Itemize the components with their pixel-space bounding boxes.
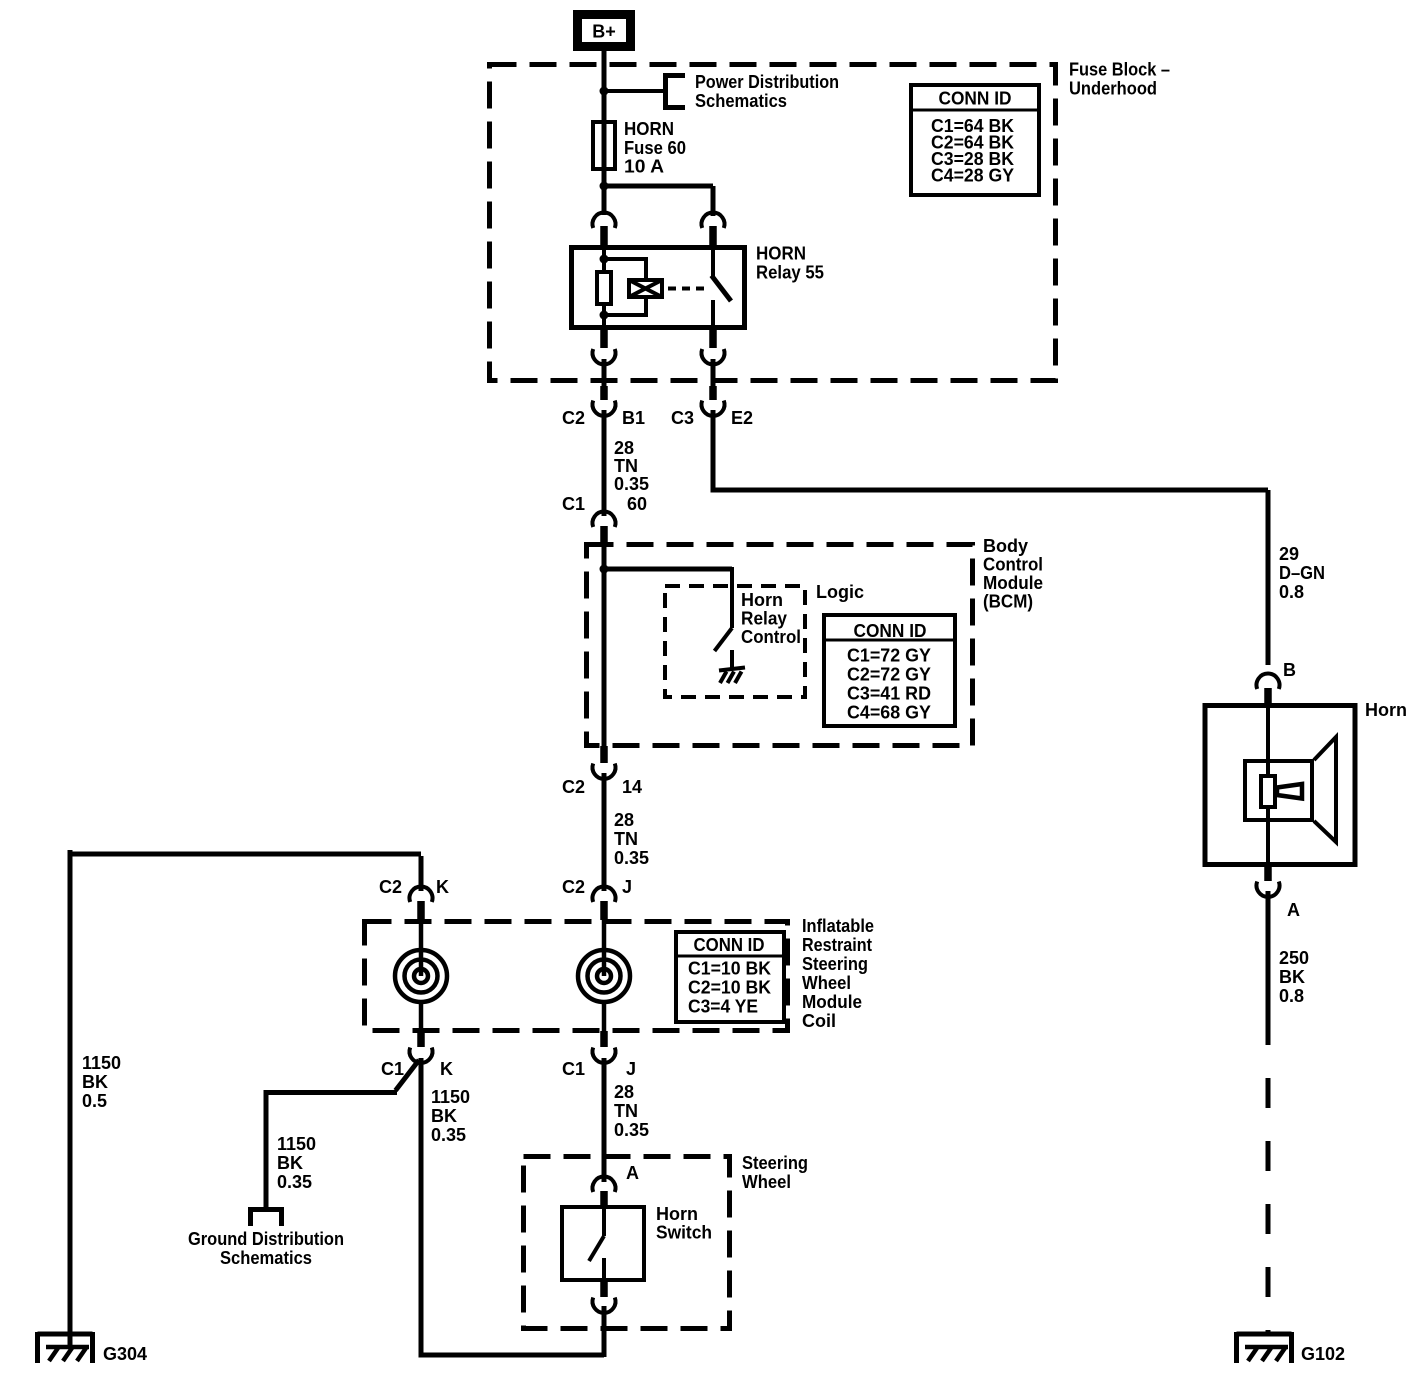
svg-text:Steering: Steering [802,954,868,974]
svg-text:0.35: 0.35 [614,848,649,868]
svg-text:10 A: 10 A [624,157,664,177]
connector arc relay coil pin top [593,213,616,247]
svg-text:HORN: HORN [624,119,674,139]
connector pin B into horn [1257,660,1297,704]
connector arc relay switch pin bottom [702,328,725,364]
svg-text:Switch: Switch [656,1223,712,1243]
svg-text:Fuse Block –: Fuse Block – [1069,60,1170,80]
wire B1 to BCM C1 60 [602,410,607,516]
relay actuator dashed link [668,287,706,291]
svg-text:0.5: 0.5 [82,1091,107,1111]
svg-text:Schematics: Schematics [695,91,787,111]
svg-text:29: 29 [1279,544,1299,564]
svg-text:(BCM): (BCM) [983,592,1033,612]
svg-text:K: K [436,877,449,897]
svg-text:TN: TN [614,1101,638,1121]
svg-text:Control: Control [741,627,801,647]
svg-text:TN: TN [614,456,638,476]
label Body Control Module (BCM) [983,536,1043,612]
label Horn Relay Control [741,590,801,647]
logic ground symbol [719,650,745,683]
svg-text:Fuse 60: Fuse 60 [624,138,686,158]
connector arc relay switch pin top [702,213,725,247]
connector C2 pin J into coil [562,877,632,920]
relay coil to solenoid link [602,257,648,315]
label 1150 BK 0.5 [82,1053,121,1111]
svg-text:C2=10 BK: C2=10 BK [688,978,771,998]
wire 14 to coil module [602,773,607,891]
horn switch box [562,1207,644,1280]
svg-text:CONN ID: CONN ID [939,89,1012,109]
connector arc relay coil pin bottom [593,328,616,364]
horn relay control switch blade [715,628,733,651]
svg-text:BK: BK [277,1153,303,1173]
svg-text:HORN: HORN [756,244,806,264]
svg-text:C2=72 GY: C2=72 GY [847,665,931,685]
label 1150 BK 0.35 right [431,1087,470,1145]
svg-text:C3=4 YE: C3=4 YE [688,997,758,1017]
svg-text:Wheel: Wheel [802,973,851,993]
steering wheel dashed box [524,1157,730,1329]
label Horn Switch [656,1204,712,1243]
svg-text:28: 28 [614,438,634,458]
node junction to power distribution [600,87,665,96]
svg-text:CONN ID: CONN ID [694,935,765,955]
label 28 TN 0.35 circuit [614,438,649,494]
svg-text:0.35: 0.35 [277,1172,312,1192]
wire relay switch pin to fuse block edge [711,359,716,387]
svg-text:Relay 55: Relay 55 [756,263,824,283]
label Logic [816,582,864,602]
svg-text:0.35: 0.35 [614,1120,649,1140]
svg-text:J: J [622,877,632,897]
wire splice to ground distribution [266,1060,419,1209]
horn box [1205,706,1355,865]
svg-text:B+: B+ [592,22,616,42]
connector pin A into horn switch [592,1163,639,1207]
svg-text:C2: C2 [562,877,585,897]
inflatable restraint steering wheel module coil dashed box [365,922,788,1031]
connector C1 pin 60 into BCM [562,494,647,543]
svg-text:C1: C1 [562,494,585,514]
svg-text:0.8: 0.8 [1279,986,1304,1006]
svg-text:Control: Control [983,555,1043,575]
label 29 D-GN 0.8 circuit [1279,544,1325,602]
ground G304 [38,1332,148,1364]
wire 250 BK 0.8 to G102 [1266,891,1271,1336]
connector C2 pin K into coil [379,877,449,920]
wire B+ to horn fuse [602,48,607,122]
svg-text:Horn: Horn [1365,700,1407,720]
svg-text:G304: G304 [103,1344,147,1364]
logic dashed box [665,586,805,697]
svg-text:C3: C3 [671,408,694,428]
svg-text:D–GN: D–GN [1279,563,1325,583]
relay switch contact [712,247,732,330]
svg-text:C2: C2 [562,408,585,428]
power distribution schematics bracket [663,73,685,110]
label Steering Wheel [742,1153,808,1192]
wire BCM internal [602,542,607,748]
fuse block CONN ID table [911,85,1039,195]
svg-text:0.8: 0.8 [1279,582,1304,602]
svg-text:Inflatable: Inflatable [802,916,874,936]
power feed B+ terminal box [578,15,631,47]
svg-text:BK: BK [82,1072,108,1092]
label 28 TN 0.35 circuit 3 [614,1082,649,1140]
svg-text:A: A [1287,900,1300,920]
svg-text:Coil: Coil [802,1011,836,1031]
wire 1150 BK 0.5 to G304 [68,850,73,1348]
wire fuse to relay switch side [602,186,713,216]
svg-text:G102: G102 [1301,1344,1345,1364]
label 250 BK 0.8 [1279,948,1309,1006]
node junction below fuse [600,171,609,215]
connector C1 pin K out of coil [381,1031,453,1079]
svg-text:Underhood: Underhood [1069,79,1157,99]
relay coil resistor element [597,247,611,330]
label HORN Fuse 60 10 A [624,119,686,177]
svg-text:Horn: Horn [656,1204,698,1224]
coil CONN ID table [676,932,784,1022]
svg-text:BK: BK [1279,967,1305,987]
svg-text:C2: C2 [562,777,585,797]
svg-text:C1: C1 [381,1059,404,1079]
svg-text:1150: 1150 [431,1087,470,1107]
ground G102 [1237,1332,1346,1364]
fuse block - underhood dashed enclosure [490,65,1056,381]
svg-text:Module: Module [802,992,862,1012]
clockspring coil J [578,919,630,1033]
label Power Distribution Schematics [695,72,839,111]
connector C2 pin B1 [562,386,645,428]
svg-text:Wheel: Wheel [742,1172,791,1192]
svg-text:Body: Body [983,536,1028,556]
svg-text:BK: BK [431,1106,457,1126]
svg-text:Ground Distribution: Ground Distribution [188,1229,344,1249]
svg-text:1150: 1150 [82,1053,121,1073]
svg-text:K: K [440,1059,453,1079]
svg-text:Horn: Horn [741,590,783,610]
svg-text:14: 14 [622,777,642,797]
wire horn switch return [419,1058,605,1357]
clockspring coil K [395,919,447,1033]
svg-text:1150: 1150 [277,1134,316,1154]
svg-text:C1=10 BK: C1=10 BK [688,959,771,979]
svg-text:28: 28 [614,810,634,830]
label Ground Distribution Schematics [188,1229,344,1268]
ground distribution schematics bracket [248,1207,284,1226]
label Inflatable Restraint Steering Wheel Module Coil [802,916,874,1031]
svg-text:Module: Module [983,573,1043,593]
label Horn [1365,700,1407,720]
connector C1 pin J out of coil [562,1031,636,1079]
horn switch contact [589,1206,604,1282]
relay solenoid X box [629,280,662,297]
svg-text:J: J [626,1059,636,1079]
horn relay control driver wire [730,567,734,628]
svg-text:E2: E2 [731,408,753,428]
svg-text:0.35: 0.35 [614,474,649,494]
svg-text:Power Distribution: Power Distribution [695,72,839,92]
svg-text:28: 28 [614,1082,634,1102]
svg-text:C2: C2 [379,877,402,897]
fuse HORN Fuse 60 10 A [593,120,615,171]
svg-text:0.35: 0.35 [431,1125,466,1145]
svg-text:TN: TN [614,829,638,849]
svg-text:C4=68 GY: C4=68 GY [847,703,931,723]
node BCM junction to horn relay control [600,565,733,574]
connector below horn switch [592,1280,615,1313]
svg-text:Relay: Relay [741,609,787,629]
label Fuse Block - Underhood [1069,60,1170,99]
svg-text:C3=41 RD: C3=41 RD [847,684,931,704]
svg-text:C1=72 GY: C1=72 GY [847,646,931,666]
svg-text:60: 60 [627,494,647,514]
svg-text:Steering: Steering [742,1153,808,1173]
connector pin A out of horn [1257,866,1301,920]
relay HORN Relay 55 box [572,248,745,328]
connector C2 pin 14 out of BCM [562,746,642,797]
label 1150 BK 0.35 left [277,1134,316,1192]
wire relay coil pin to fuse block edge [602,359,607,387]
svg-text:C4=28 GY: C4=28 GY [931,166,1014,186]
svg-text:B1: B1 [622,408,645,428]
svg-text:A: A [626,1163,639,1183]
svg-text:Logic: Logic [816,582,864,602]
label HORN Relay 55 [756,244,824,283]
svg-text:Restraint: Restraint [802,935,872,955]
BCM CONN ID table [824,615,955,726]
svg-text:250: 250 [1279,948,1309,968]
wire J to horn switch [602,1058,607,1182]
svg-text:Schematics: Schematics [220,1248,312,1268]
connector C3 pin E2 [671,386,753,428]
label 28 TN 0.35 circuit 2 [614,810,649,868]
svg-text:C1: C1 [562,1059,585,1079]
body control module dashed box [587,545,973,746]
svg-text:B: B [1283,660,1296,680]
wire E2 to horn B [711,410,1269,665]
svg-text:CONN ID: CONN ID [854,621,927,641]
horn speaker symbol [1245,703,1336,867]
wire G304 branch horizontal [70,854,421,891]
